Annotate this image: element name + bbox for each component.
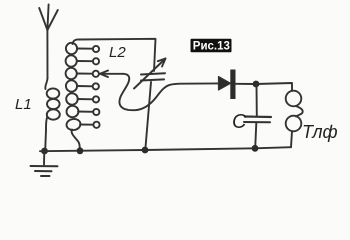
top hook to frame — [73, 39, 80, 44]
label Ris.13 — [191, 39, 232, 53]
turn 3 — [65, 67, 78, 80]
turn 1 — [65, 42, 78, 55]
node capacitor C bottom — [252, 145, 259, 152]
wire bottom bus — [40, 147, 291, 151]
turn 7 — [66, 118, 81, 131]
coil L1 — [45, 78, 60, 130]
ground — [31, 151, 58, 176]
svg-text:L1: L1 — [15, 96, 32, 113]
turn 4 — [65, 80, 78, 93]
turn 5 — [65, 93, 78, 106]
headphones Tlf — [286, 91, 303, 148]
node diode output — [253, 81, 260, 88]
node L2 bottom — [77, 147, 84, 154]
svg-text:Рис.13: Рис.13 — [193, 41, 230, 53]
svg-text:Тлф: Тлф — [302, 122, 338, 142]
tap arrow into L2 — [100, 71, 123, 78]
diode D — [219, 70, 236, 100]
wire L1 bottom lead — [44, 130, 47, 151]
svg-text:L2: L2 — [109, 44, 126, 61]
node ground junction — [41, 148, 48, 155]
wire tap to diode — [119, 74, 218, 110]
antenna — [39, 5, 58, 79]
wire L2 top frame — [79, 39, 156, 71]
node variable capacitor bottom — [142, 147, 149, 154]
wire diode to headphones corner — [235, 83, 292, 91]
svg-text:C: C — [232, 111, 247, 133]
turn 2 — [65, 55, 78, 68]
variable capacitor — [134, 59, 166, 89]
capacitor C — [244, 84, 271, 148]
coil L2 — [65, 39, 100, 150]
bottom squiggle lead — [72, 130, 80, 151]
turn 6 — [66, 105, 79, 118]
wire variable capacitor bottom lead — [145, 82, 151, 150]
